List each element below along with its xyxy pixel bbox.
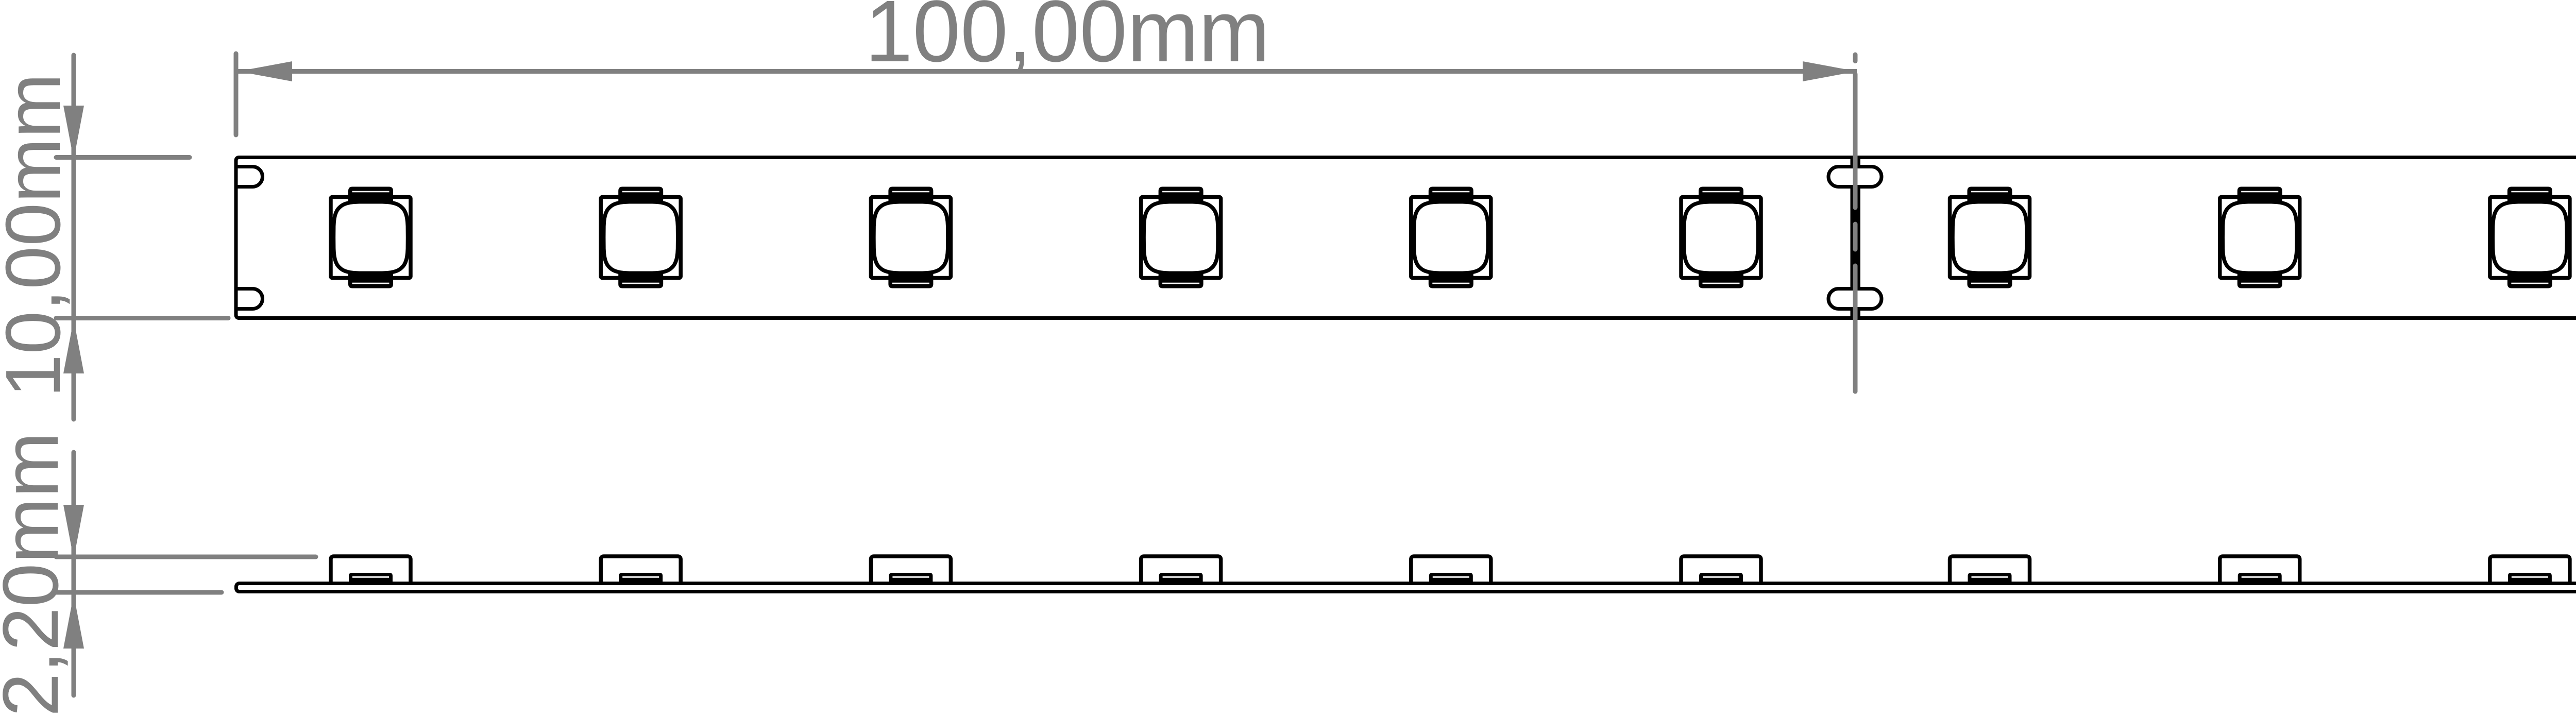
cut edge right piece xyxy=(1857,158,1860,318)
solder pad notch top-left end xyxy=(236,167,263,187)
LED D6 top view xyxy=(1681,187,1761,288)
dimension 2,20mm extension line top xyxy=(56,555,316,559)
cut line fill between piece edges xyxy=(1853,189,1858,287)
LED D8 side view xyxy=(2220,556,2300,585)
solder pad oval bottom at cut xyxy=(1828,289,1882,309)
cut edge left piece xyxy=(1851,158,1854,318)
LED D1 side view xyxy=(331,556,411,585)
dimension 10,00mm line xyxy=(72,55,76,419)
LED D6 side view xyxy=(1681,556,1761,585)
dimension 100,00mm line xyxy=(238,69,1857,74)
dimension 10,00mm extension line bottom xyxy=(56,316,228,320)
LED D7 side view xyxy=(1950,556,2030,585)
dimension 100,00mm arrow left xyxy=(238,61,292,81)
LED D2 top view xyxy=(601,187,681,288)
dimension 10,00mm arrow up xyxy=(63,319,84,373)
PCB strip side view xyxy=(236,584,2576,592)
LED D3 top view xyxy=(871,187,951,288)
dimension 100,00mm arrow right xyxy=(1803,61,1857,81)
svg-text:10,00mm: 10,00mm xyxy=(0,73,76,397)
solder pad notch bottom-left end xyxy=(236,289,263,309)
dimension 2,20mm line xyxy=(72,452,76,695)
LED D7 top view xyxy=(1950,187,2030,288)
svg-text:2,20mm: 2,20mm xyxy=(0,432,75,716)
dimension 10,00mm extension line top xyxy=(56,155,190,160)
PCB strip top view right piece xyxy=(1858,158,2576,318)
LED D2 side view xyxy=(601,556,681,585)
LED D4 top view xyxy=(1141,187,1221,288)
LED D4 side view xyxy=(1141,556,1221,585)
LED D3 side view xyxy=(871,556,951,585)
dimension 100,00mm extension line left xyxy=(234,54,239,135)
dimension 2,20mm arrow down xyxy=(63,505,84,559)
LED D9 top view xyxy=(2490,187,2570,288)
svg-text:100,00mm: 100,00mm xyxy=(865,0,1270,80)
LED D8 top view xyxy=(2220,187,2300,288)
dimension 2,20mm extension line bottom xyxy=(56,590,222,595)
LED D5 top view xyxy=(1411,187,1491,288)
dimension 100,00mm centerline at cut xyxy=(1853,55,1858,391)
PCB strip top view left piece xyxy=(236,158,1852,318)
solder pad oval top at cut xyxy=(1828,167,1882,187)
LED D5 side view xyxy=(1411,556,1491,585)
LED D9 side view xyxy=(2490,556,2570,585)
LED D1 top view xyxy=(331,187,411,288)
dimension 2,20mm arrow up xyxy=(63,594,84,649)
dimension 10,00mm arrow down xyxy=(63,106,84,160)
